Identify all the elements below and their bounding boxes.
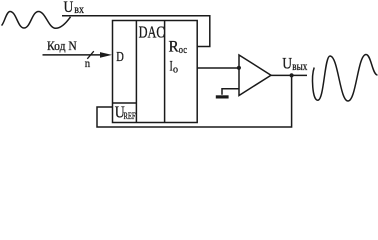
wire Uвх to Roc	[62, 16, 210, 47]
ground symbol	[216, 95, 229, 98]
arrowhead Kod N input	[100, 52, 112, 58]
label Uвх	[64, 0, 85, 16]
op-amp A1	[239, 55, 271, 96]
DAC divider D section	[135, 21, 137, 123]
wire output Uвых	[271, 74, 307, 76]
svg-text:DAC: DAC	[139, 23, 165, 42]
svg-text:ос: ос	[179, 45, 188, 56]
node junction output / feedback	[290, 73, 294, 77]
DAC divider Uref compartment	[113, 102, 137, 104]
label pin Roc	[169, 39, 188, 57]
svg-text:n: n	[85, 56, 90, 70]
wire ground branch	[222, 89, 239, 95]
label pin Uref	[115, 103, 136, 122]
DAC box U1	[113, 21, 198, 123]
svg-text:REF: REF	[124, 111, 136, 121]
svg-text:Код N: Код N	[47, 38, 77, 53]
label pin Io	[170, 58, 179, 75]
DAC divider output section	[164, 21, 166, 123]
wire Kod N	[43, 54, 102, 56]
node junction Io / op-amp input	[237, 66, 241, 70]
output sine wave Uвых	[313, 55, 378, 102]
svg-text:R: R	[169, 39, 180, 56]
svg-text:вх: вх	[74, 2, 84, 16]
bus slash n	[87, 51, 94, 59]
wire Io output	[197, 67, 239, 69]
label Uвых	[282, 56, 307, 73]
svg-text:вых: вых	[292, 59, 307, 73]
svg-text:о: о	[173, 64, 178, 75]
svg-text:U: U	[282, 56, 292, 73]
svg-text:U: U	[64, 0, 74, 16]
input sine wave Uвх	[2, 12, 71, 29]
wire feedback to Uref	[97, 75, 292, 127]
svg-text:D: D	[116, 50, 124, 65]
